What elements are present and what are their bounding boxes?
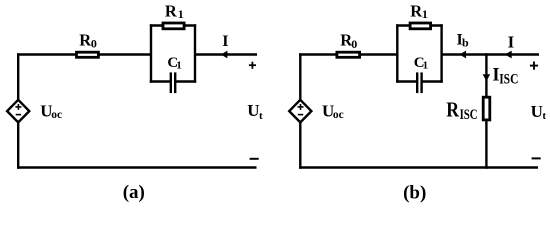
wire: top wire right segment (b): [441, 53, 539, 55]
minus terminal sign (a): [250, 158, 259, 160]
minus terminal sign (b): [532, 157, 541, 159]
resistor R1 (a): [163, 23, 184, 29]
voltage source U_oc diamond (a): [7, 100, 29, 123]
wire: left rail vertical (a): [17, 53, 19, 168]
RC loop bottom branch right (b): [422, 80, 443, 82]
svg-text:t: t: [542, 110, 546, 122]
minus sign inside source (b): [298, 114, 303, 116]
svg-text:(a): (a): [123, 182, 145, 203]
svg-text:I: I: [222, 33, 228, 50]
RC loop bottom branch right (a): [175, 80, 196, 82]
RC loop bottom branch left (a): [150, 80, 171, 82]
svg-text:1: 1: [423, 59, 429, 71]
plus sign inside source (a): [15, 104, 21, 110]
current arrow I_b (b): [459, 51, 466, 59]
svg-text:1: 1: [176, 59, 182, 71]
svg-text:U: U: [531, 102, 543, 121]
RC loop top branch (a): [150, 24, 196, 26]
svg-text:ISC: ISC: [460, 107, 478, 123]
wire: left rail vertical (b): [299, 53, 301, 168]
svg-text:ISC: ISC: [499, 72, 518, 88]
node junction branch wire (b): [485, 53, 487, 168]
capacitor C1 plates (b): [416, 72, 418, 93]
svg-text:R: R: [165, 2, 178, 21]
wire: top wire left segment (a): [17, 53, 152, 55]
svg-text:b: b: [462, 35, 469, 49]
RC loop right vertical (a): [194, 24, 196, 82]
RC loop left vertical (b): [396, 24, 398, 82]
svg-text:I: I: [508, 32, 515, 51]
current arrow I_ISC (b): [483, 74, 491, 81]
svg-text:(b): (b): [403, 183, 426, 204]
plus sign inside source (b): [298, 104, 304, 110]
svg-text:R: R: [446, 97, 459, 121]
RC loop right vertical (b): [440, 24, 442, 82]
RC loop bottom branch left (b): [396, 80, 417, 82]
wire: top wire left segment (b): [299, 53, 398, 55]
current arrow I (b): [505, 51, 512, 59]
capacitor C1 plates (a): [170, 72, 172, 93]
voltage source U_oc diamond (b): [289, 100, 311, 123]
wire: top wire right segment (a): [194, 53, 257, 55]
svg-text:1: 1: [178, 7, 184, 21]
current arrow I (a): [221, 51, 228, 59]
RC loop left vertical (a): [150, 24, 152, 82]
svg-text:0: 0: [91, 36, 97, 50]
resistor R1 (b): [410, 23, 431, 29]
svg-text:0: 0: [351, 37, 357, 51]
svg-text:oc: oc: [51, 109, 62, 121]
svg-text:oc: oc: [333, 109, 344, 121]
svg-text:1: 1: [422, 7, 428, 21]
resistor R0 (a): [77, 52, 99, 57]
resistor R_ISC (b): [483, 97, 490, 120]
RC loop top branch (b): [396, 24, 443, 26]
plus terminal sign (a): [249, 62, 256, 69]
svg-text:t: t: [259, 110, 263, 122]
svg-text:U: U: [247, 101, 259, 120]
plus terminal sign (b): [530, 62, 538, 70]
minus sign inside source (a): [16, 114, 21, 116]
wire: bottom wire (b): [299, 166, 538, 168]
resistor R0 (b): [337, 52, 360, 57]
wire: bottom wire (a): [17, 166, 257, 168]
